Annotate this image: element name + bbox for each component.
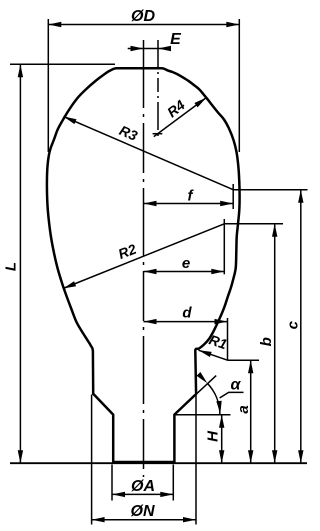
- svg-text:d: d: [182, 305, 192, 322]
- svg-text:H: H: [205, 430, 222, 442]
- dimension H line: [221, 415, 223, 464]
- centerline lamp axis: [143, 40, 145, 477]
- svg-text:ØA: ØA: [131, 478, 155, 495]
- radius R3 center tick: [232, 184, 234, 209]
- dimension OA line: [112, 493, 173, 495]
- svg-text:ØD: ØD: [131, 8, 155, 25]
- dimension ON extension right: [195, 395, 197, 525]
- baseline reference plane: [10, 462, 307, 464]
- dimension d / R1 center tick: [227, 318, 229, 360]
- angle alpha arc: [207, 383, 220, 414]
- dimension a line: [250, 360, 252, 463]
- dimension OA extension left: [111, 465, 113, 501]
- dimension OA extension right: [172, 465, 174, 501]
- dimension e line: [144, 271, 225, 273]
- angle alpha leader: [220, 392, 244, 398]
- dimension OD extension right: [238, 19, 240, 152]
- radius R2 line: [63, 224, 224, 289]
- svg-text:ØN: ØN: [131, 503, 155, 520]
- radius R4 center tick: [153, 133, 163, 135]
- svg-text:α: α: [231, 377, 242, 394]
- cone angle extension line: [190, 376, 216, 400]
- dimension E line: [128, 48, 171, 50]
- svg-text:c: c: [284, 320, 301, 329]
- svg-text:a: a: [235, 405, 252, 413]
- radius R2 / e center tick: [223, 219, 225, 274]
- dimension b reference line: [224, 223, 283, 225]
- bulb axis E line: [157, 40, 159, 140]
- dimension OD extension left: [47, 19, 49, 152]
- dimension c reference line: [233, 189, 307, 191]
- dimension a reference line: [228, 359, 260, 361]
- radius R4 line: [154, 98, 207, 137]
- dimension L extension top: [10, 63, 115, 65]
- svg-text:e: e: [182, 255, 190, 272]
- dimension ON extension left: [91, 395, 93, 525]
- svg-text:L: L: [3, 262, 20, 271]
- radius R1 line: [199, 350, 228, 360]
- dimension f line: [144, 203, 234, 205]
- svg-text:b: b: [258, 337, 275, 346]
- svg-text:E: E: [170, 31, 182, 48]
- dimension c line: [300, 190, 302, 464]
- dimension OD line: [48, 24, 239, 26]
- radius R3 line: [64, 117, 234, 190]
- H reference line: [175, 414, 231, 416]
- dimension ON line: [92, 519, 196, 521]
- bulb outline: [47, 68, 240, 462]
- dimension L line: [19, 64, 21, 463]
- dimension d line: [144, 321, 228, 323]
- dimension b line: [274, 224, 276, 463]
